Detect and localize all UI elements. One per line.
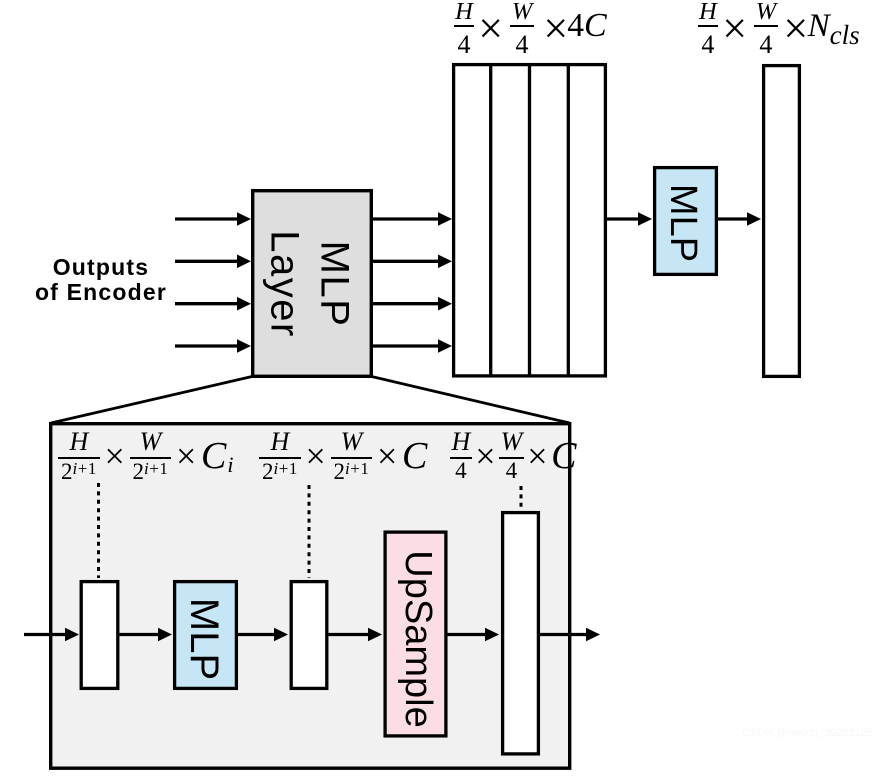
input arrow 1 — [175, 212, 251, 226]
arrow MLP to output map — [718, 212, 761, 226]
formula H/2^i+1 x W/2^i+1 x C — [259, 433, 427, 481]
detail in-arrow — [24, 628, 79, 642]
output arrow 2 — [373, 255, 452, 269]
label Outputs of Encoder — [11, 255, 191, 305]
formula H/2^i+1 x W/2^i+1 x Ci — [58, 433, 234, 481]
formula H/4 x W/4 x Ncls — [698, 1, 860, 57]
formula H/4 x W/4 x C (detail) — [450, 433, 576, 481]
detail out-arrow — [540, 628, 600, 642]
arrow rect1 to MLP2 — [120, 628, 173, 642]
output arrow 1 — [373, 212, 452, 226]
formula H/4 x W/4 x 4C — [454, 1, 607, 57]
detail rect 1 — [81, 582, 118, 689]
detail rect 2 — [291, 582, 327, 689]
label UpSample (rotated) — [397, 550, 437, 727]
detail tall rect — [503, 513, 539, 754]
detail box — [51, 424, 570, 769]
output map rect — [764, 66, 800, 377]
expansion line right — [372, 377, 570, 424]
input arrow 4 — [175, 339, 251, 353]
faint watermark — [742, 727, 873, 739]
arrow UpSample to tall rect — [448, 628, 500, 642]
gray box MLP Layer — [253, 191, 372, 377]
dotted line 3 — [520, 486, 523, 509]
output arrow 4 — [373, 339, 452, 353]
dotted line 1 — [97, 483, 100, 578]
label MLP (detail blue, rotated) — [182, 597, 224, 679]
blue MLP box (top) — [655, 168, 717, 275]
output arrow 3 — [373, 297, 452, 311]
arrow stack to MLP — [607, 212, 652, 226]
dotted line 2 — [308, 485, 311, 578]
pink UpSample box — [385, 532, 446, 736]
expansion line left — [51, 377, 252, 424]
input arrow 3 — [175, 297, 251, 311]
input arrow 2 — [175, 255, 251, 269]
feature stack — [454, 63, 606, 376]
label MLP Layer (rotated) — [259, 230, 358, 338]
label MLP (top blue, rotated) — [662, 184, 702, 262]
arrow rect2 to UpSample — [329, 628, 383, 642]
arrow MLP2 to rect2 — [238, 628, 288, 642]
blue MLP box (detail) — [175, 582, 237, 689]
